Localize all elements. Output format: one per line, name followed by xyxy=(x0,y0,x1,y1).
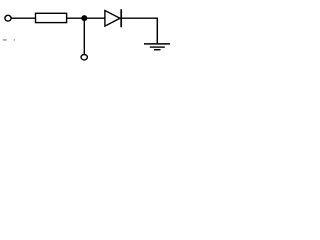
label (faint tiny text dot) xyxy=(14,39,15,40)
wire (terminal T1 to resistor) xyxy=(11,17,35,19)
wire (corner down to ground) xyxy=(156,18,158,44)
terminal T1 (left input pin) xyxy=(5,15,11,21)
label (faint tiny text, left) xyxy=(3,39,7,40)
ground GND (earth symbol, top bar) xyxy=(144,43,170,45)
node A (junction dot) xyxy=(81,15,87,21)
ground GND (middle bar) xyxy=(150,46,165,48)
diode D1 cathode bar xyxy=(120,9,122,27)
wire (node A to diode anode) xyxy=(84,17,105,19)
terminal T2 (bottom output pin) xyxy=(81,55,87,60)
wire (resistor to node A) xyxy=(67,17,85,19)
diode D1 (triangle anode) xyxy=(105,11,120,27)
resistor R1 (box symbol) xyxy=(36,13,67,22)
wire (node A down to terminal T2) xyxy=(83,18,85,54)
wire (diode cathode to corner) xyxy=(122,17,158,19)
ground GND (bottom bar) xyxy=(154,49,161,51)
